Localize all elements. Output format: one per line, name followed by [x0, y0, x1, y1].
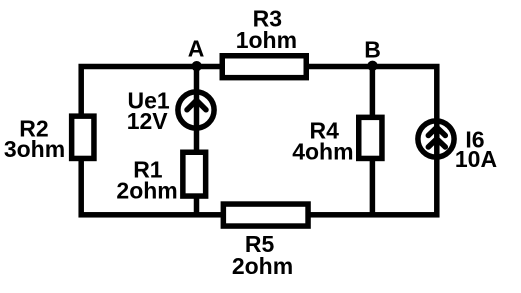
svg-text:4ohm: 4ohm: [292, 139, 353, 165]
svg-text:A: A: [188, 36, 205, 62]
svg-text:B: B: [364, 37, 381, 63]
svg-text:2ohm: 2ohm: [116, 178, 177, 204]
svg-text:10A: 10A: [455, 146, 497, 172]
svg-text:2ohm: 2ohm: [232, 253, 293, 279]
svg-text:12V: 12V: [127, 108, 169, 134]
svg-text:3ohm: 3ohm: [4, 136, 65, 162]
svg-text:1ohm: 1ohm: [236, 27, 297, 53]
